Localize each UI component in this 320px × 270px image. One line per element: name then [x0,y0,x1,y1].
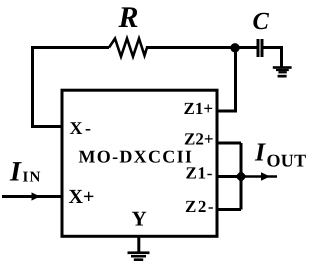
wire Z1- pin to output bus [217,175,241,178]
wire from capacitor to ground drop [264,48,282,67]
node junction dot on top rail [230,43,239,52]
wire Z2+ pin to output bus [217,142,241,145]
wire output bus vertical [240,143,243,210]
resistor R1 zigzag [109,39,147,57]
ground (capacitor) [273,66,292,77]
label IOUT [254,138,306,171]
label C [253,8,270,35]
svg-text:X-: X- [70,118,94,138]
label IIN [9,157,42,188]
pin Z2+ label [184,130,214,149]
svg-text:IN: IN [23,170,42,186]
svg-text:Z2-: Z2- [185,197,215,216]
svg-text:OUT: OUT [267,151,307,171]
svg-text:Z1-: Z1- [186,164,214,183]
wire input with arrow IIN into X+ [2,192,62,200]
pin Y label [132,207,147,231]
svg-text:X+: X+ [69,186,95,208]
label MO-DXCCII [79,147,194,167]
capacitor C1 plates [258,39,262,57]
op-amp block U1 MO-DXCCII [62,90,217,236]
wire Z1+ pin to top rail junction [217,48,236,112]
svg-text:I: I [9,157,22,188]
svg-text:I: I [254,138,266,167]
pin X- label [70,118,94,138]
svg-text:Z1+: Z1+ [184,99,214,118]
label R [118,1,139,34]
svg-text:R: R [118,1,139,34]
wire Z2- pin to output bus [217,208,241,211]
svg-text:MO-DXCCII: MO-DXCCII [79,147,194,167]
svg-text:C: C [253,8,270,35]
ground (Y pin) [128,251,150,261]
wire top rail from resistor to capacitor [146,46,257,49]
svg-text:Z2+: Z2+ [184,130,214,149]
wire output with arrow IOUT [241,172,277,180]
pin Z1+ label [184,99,214,118]
svg-text:Y: Y [132,207,147,231]
pin X+ label [69,186,95,208]
pin Z1- label [186,164,214,183]
wire Y pin to ground [137,237,140,253]
node junction dot on output bus [235,171,247,183]
wire feedback left vertical from X- up to top rail [33,48,110,127]
pin Z2- label [185,197,215,216]
